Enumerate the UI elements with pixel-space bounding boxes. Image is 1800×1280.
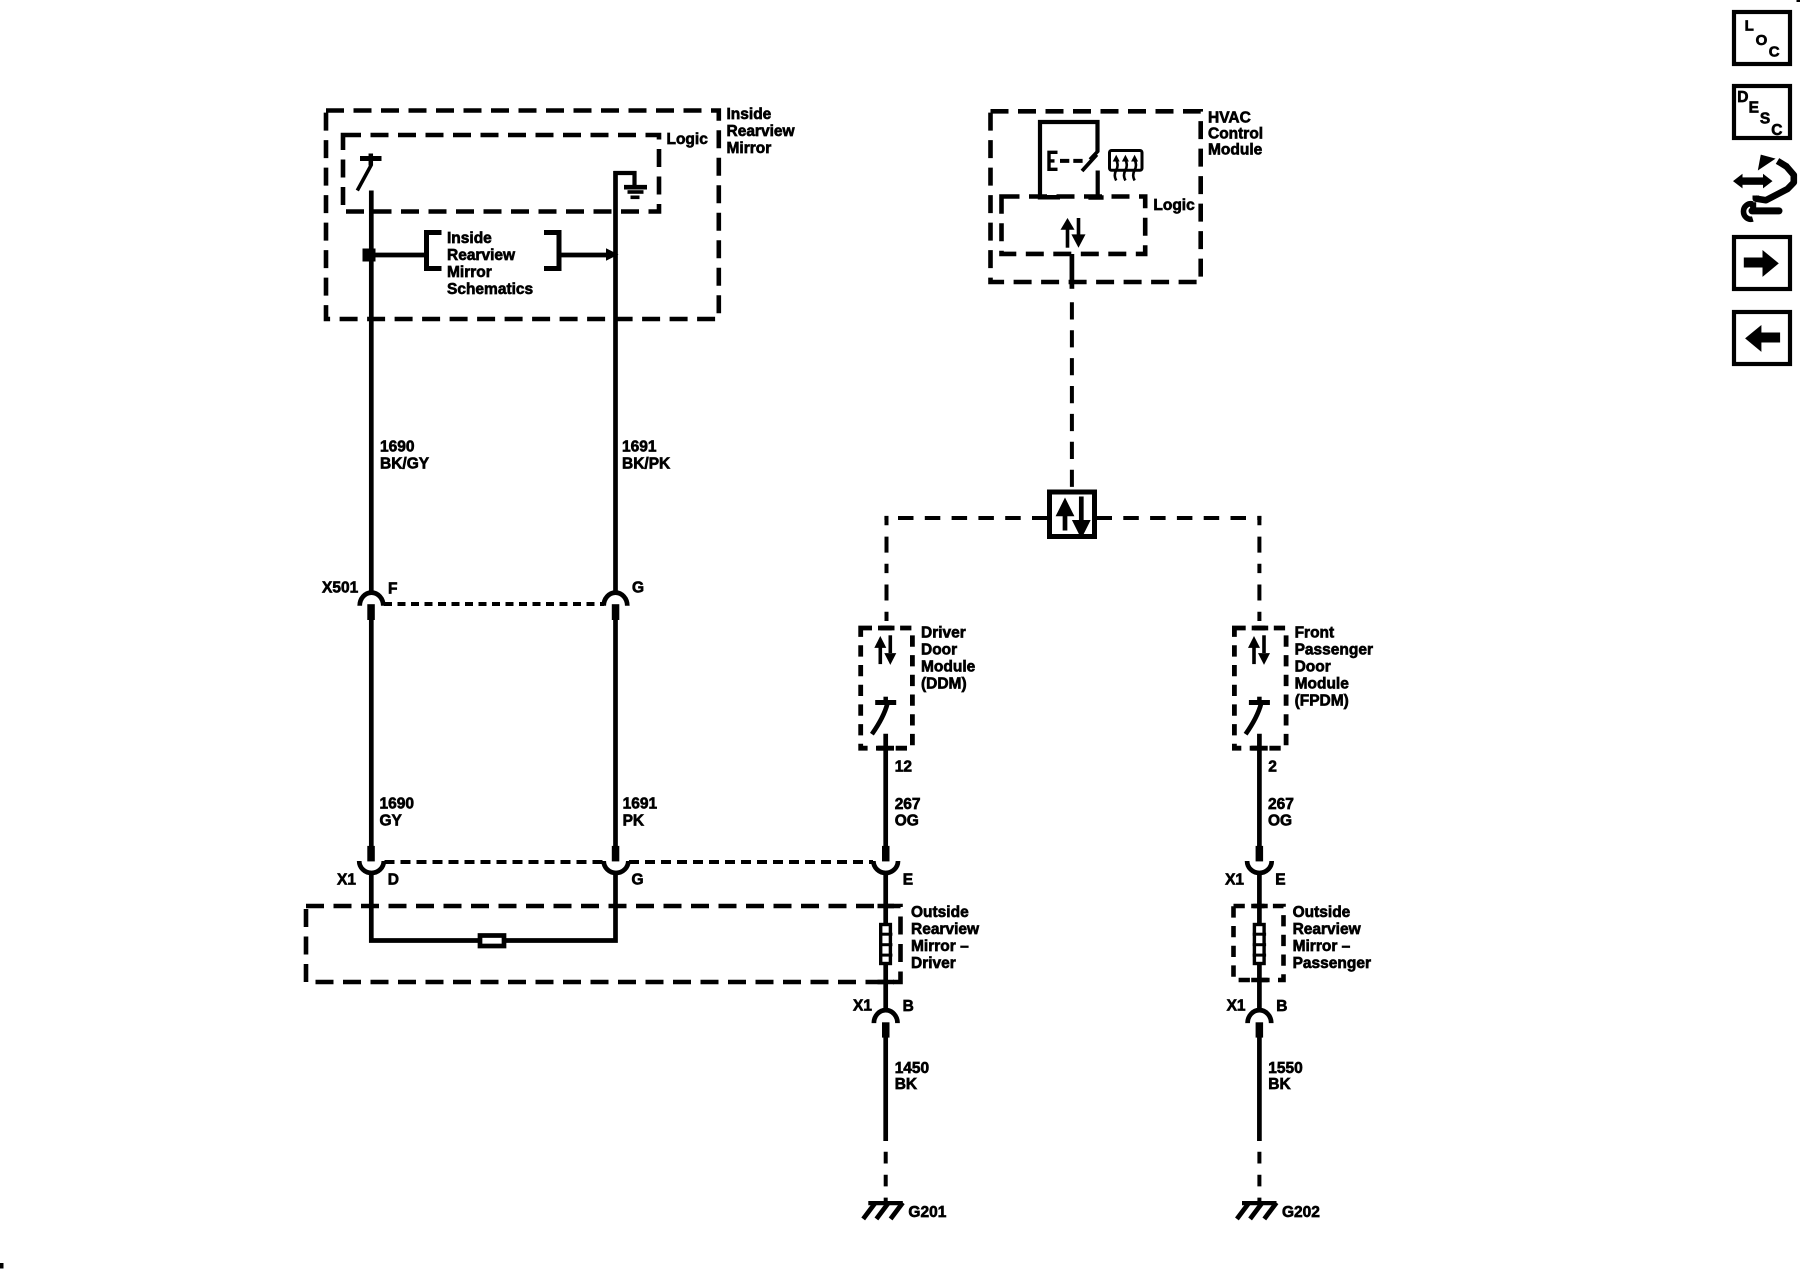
DDM switch pivot tick bbox=[883, 697, 888, 705]
wire 1691 PK middle segment bbox=[613, 619, 618, 846]
Front Passenger Door Module label bbox=[1295, 625, 1373, 710]
HVAC logic down arrow bbox=[1071, 218, 1085, 248]
IRM switch blade bbox=[357, 165, 371, 191]
Front Passenger Door Module dashed box bbox=[1234, 628, 1286, 748]
svg-text:267: 267 bbox=[895, 796, 921, 813]
svg-text:12: 12 bbox=[895, 759, 912, 776]
svg-text:Mirror: Mirror bbox=[447, 264, 492, 281]
passenger mirror box bottom crossing dash bbox=[1251, 978, 1268, 983]
svg-text:Mirror: Mirror bbox=[727, 140, 772, 157]
svg-text:Driver: Driver bbox=[921, 625, 966, 642]
passenger mirror wire into heater bbox=[1257, 873, 1262, 926]
page artifact mark top-right bbox=[1797, 0, 1800, 2]
connector X1 pin G stub bbox=[612, 846, 620, 862]
wire 1690 GY middle segment bbox=[369, 619, 374, 846]
HVAC Logic dashed box bbox=[1002, 197, 1146, 254]
svg-text:Rearview: Rearview bbox=[911, 921, 980, 938]
heated mirror icon box bbox=[1110, 151, 1143, 171]
svg-text:1691: 1691 bbox=[622, 439, 657, 456]
IRM switch pivot tick bbox=[369, 154, 374, 166]
connector X1 B driver stub bbox=[882, 1022, 890, 1037]
driver mirror wire into heater bbox=[883, 873, 888, 926]
ground G201 bbox=[863, 1203, 903, 1219]
svg-text:BK: BK bbox=[1268, 1076, 1291, 1093]
ground G202 bbox=[1237, 1203, 1277, 1219]
SIDEBAR-ICONS bbox=[1733, 12, 1794, 364]
svg-text:Outside: Outside bbox=[1293, 904, 1351, 921]
svg-text:X1: X1 bbox=[853, 998, 872, 1015]
svg-text:Inside: Inside bbox=[727, 106, 772, 123]
HVAC mirror switch outline bbox=[1040, 122, 1098, 198]
DDM bottom edge crossing dash bbox=[878, 746, 895, 751]
wire 1690 BK/GY upper segment bbox=[369, 191, 374, 593]
svg-text:C: C bbox=[1771, 122, 1782, 139]
schematics link right bracket bbox=[544, 233, 559, 269]
FPDM bottom edge crossing dash bbox=[1251, 746, 1268, 751]
connector X1 dotted line G-E bbox=[629, 860, 873, 864]
HVAC Control Module label bbox=[1208, 110, 1263, 159]
driver mirror wire below heater bbox=[883, 964, 888, 1012]
icon LOC button box bbox=[1734, 12, 1790, 64]
connector X1 B passenger stub bbox=[1256, 1022, 1264, 1037]
icon prev-page left arrow bbox=[1745, 325, 1780, 352]
svg-text:(FPDM): (FPDM) bbox=[1295, 693, 1349, 710]
HVAC Control Module dashed box bbox=[991, 111, 1201, 282]
HVAC-ASSEMBLY bbox=[861, 110, 1373, 889]
wire 1450 BK solid bbox=[883, 1037, 888, 1141]
svg-text:Mirror –: Mirror – bbox=[1293, 938, 1351, 955]
wire label 1690 GY bbox=[380, 796, 414, 830]
wire label 267 OG left bbox=[895, 796, 921, 830]
HVAC switch base dash bbox=[1038, 195, 1060, 200]
icon DESC letters bbox=[1737, 89, 1782, 139]
svg-text:Module: Module bbox=[1208, 142, 1263, 159]
wire 1690 GY into driver mirror bbox=[371, 873, 480, 941]
passenger mirror box top crossing dash bbox=[1251, 904, 1268, 909]
junction dashed wire left bbox=[884, 516, 1047, 520]
passenger mirror heater element bbox=[1253, 925, 1266, 964]
FPDM switch pivot tick bbox=[1257, 697, 1262, 705]
connector X501 dotted line bbox=[384, 602, 604, 606]
FPDM switch blade bbox=[1246, 703, 1262, 734]
connector X501 pin G stub bbox=[612, 604, 620, 620]
svg-text:GY: GY bbox=[380, 813, 403, 830]
mirror motor resistor driver bbox=[480, 936, 504, 947]
svg-text:BK/GY: BK/GY bbox=[380, 456, 430, 473]
connector X1 dotted line D-G bbox=[385, 860, 604, 864]
svg-text:G: G bbox=[632, 580, 644, 597]
Inside Rearview Mirror outer dashed box bbox=[326, 111, 719, 320]
svg-text:Inside: Inside bbox=[447, 230, 492, 247]
wire label 1550 BK bbox=[1268, 1060, 1302, 1093]
svg-text:Passenger: Passenger bbox=[1295, 642, 1373, 659]
heated mirror icon arrowheads bbox=[1113, 155, 1138, 162]
FPDM switch contact bar bbox=[1249, 700, 1270, 705]
icon wrench bbox=[1743, 202, 1779, 219]
wire label 1690 BK/GY bbox=[380, 439, 430, 473]
Inside Rearview Mirror Schematics label bbox=[447, 230, 533, 298]
svg-text:Rearview: Rearview bbox=[1293, 921, 1362, 938]
HVAC mirror switch blade bbox=[1082, 155, 1097, 171]
HVAC mirror switch dashes bbox=[1060, 159, 1083, 163]
connector X1 passenger pin E arc bbox=[1247, 861, 1272, 873]
svg-text:D: D bbox=[1737, 89, 1748, 106]
svg-text:BK: BK bbox=[895, 1076, 918, 1093]
connector X1 B driver arc bbox=[874, 1010, 898, 1023]
Outside Rearview Mirror Passenger label bbox=[1293, 904, 1371, 972]
wire 1550 BK dashed bbox=[1257, 1152, 1261, 1201]
svg-text:X1: X1 bbox=[1225, 872, 1244, 889]
Inside Rearview Mirror label bbox=[727, 106, 796, 157]
svg-text:G: G bbox=[632, 872, 644, 889]
svg-text:Door: Door bbox=[921, 642, 957, 659]
svg-text:B: B bbox=[903, 998, 914, 1015]
svg-text:Front: Front bbox=[1295, 625, 1335, 642]
svg-text:G201: G201 bbox=[908, 1204, 946, 1221]
HVAC mirror switch pole bbox=[1096, 171, 1100, 198]
wire label 267 OG right bbox=[1268, 796, 1294, 830]
svg-text:1690: 1690 bbox=[380, 796, 414, 813]
junction up-down arrow box bbox=[1050, 492, 1095, 537]
FPDM down arrow bbox=[1258, 635, 1270, 665]
connector X1 B passenger arc bbox=[1248, 1010, 1272, 1023]
junction dashed wire left riser bbox=[885, 516, 889, 625]
svg-text:Rearview: Rearview bbox=[727, 123, 796, 140]
connector X1 pin G arc bbox=[604, 861, 629, 873]
connector X1 pin E stub bbox=[882, 846, 890, 862]
svg-text:X1: X1 bbox=[337, 872, 356, 889]
connector X501 pin F stub bbox=[367, 604, 375, 620]
wire from schematics link right bbox=[559, 253, 607, 258]
HVAC output wire dashed bbox=[1070, 302, 1074, 490]
icon LOC letters bbox=[1745, 18, 1780, 61]
DDM switch contact bar bbox=[875, 700, 896, 705]
svg-text:Outside: Outside bbox=[911, 904, 969, 921]
icon next-page button box bbox=[1734, 237, 1790, 289]
svg-text:Mirror –: Mirror – bbox=[911, 938, 969, 955]
FPDM output wire bbox=[1257, 734, 1262, 846]
svg-text:Schematics: Schematics bbox=[447, 281, 533, 298]
wire 1450 BK dashed bbox=[884, 1152, 888, 1201]
svg-text:1550: 1550 bbox=[1268, 1060, 1302, 1077]
svg-text:(DDM): (DDM) bbox=[921, 676, 967, 693]
svg-text:S: S bbox=[1760, 111, 1770, 128]
junction box down arrow bbox=[1072, 497, 1091, 539]
svg-text:E: E bbox=[1749, 99, 1759, 116]
svg-text:X1: X1 bbox=[1227, 998, 1246, 1015]
connector X1 pin E arc bbox=[873, 861, 898, 873]
heated mirror icon arrows bbox=[1115, 160, 1136, 181]
DDM up arrow bbox=[874, 636, 886, 664]
HVAC logic up arrow bbox=[1061, 218, 1075, 248]
svg-text:OG: OG bbox=[1268, 813, 1292, 830]
connector X1 pin D stub bbox=[367, 846, 375, 862]
connector X501 pin G arc bbox=[604, 593, 628, 606]
FPDM up arrow bbox=[1248, 636, 1260, 664]
svg-text:Rearview: Rearview bbox=[447, 247, 516, 264]
svg-text:O: O bbox=[1756, 32, 1768, 49]
icon reroute squiggle path bbox=[1756, 161, 1794, 200]
icon prev-page button box bbox=[1734, 312, 1790, 364]
driver mirror heater element bbox=[879, 925, 892, 964]
icon reroute arrowhead bbox=[1758, 155, 1776, 171]
HVAC mirror switch pole T-bar bbox=[1088, 195, 1103, 200]
svg-text:D: D bbox=[388, 872, 399, 889]
Outside Rearview Mirror Driver label bbox=[911, 904, 980, 972]
svg-text:267: 267 bbox=[1268, 796, 1294, 813]
connector X1 passenger pin E stub bbox=[1256, 846, 1264, 862]
wire to schematics link left bbox=[371, 253, 424, 258]
MIRRORS-AND-GROUNDS bbox=[306, 873, 1371, 1222]
svg-text:PK: PK bbox=[623, 813, 645, 830]
FPDM top edge crossing dash bbox=[1252, 626, 1269, 631]
page artifact dot bottom-left bbox=[0, 1263, 4, 1269]
wire 1691 BK/PK upper segment bbox=[613, 171, 618, 593]
svg-text:G202: G202 bbox=[1282, 1204, 1320, 1221]
wire label 1691 PK bbox=[623, 796, 658, 830]
DDM switch blade bbox=[872, 703, 888, 734]
IRM Logic dashed box bbox=[343, 135, 659, 212]
svg-text:C: C bbox=[1769, 43, 1780, 60]
junction dot on wire 1690 bbox=[363, 249, 376, 262]
icon DESC button box bbox=[1734, 86, 1790, 138]
DDM output wire bbox=[883, 734, 888, 846]
wire label 1691 BK/PK bbox=[622, 439, 671, 473]
svg-text:2: 2 bbox=[1268, 759, 1277, 776]
Outside Rearview Mirror Driver dashed box bbox=[306, 906, 901, 982]
svg-text:Module: Module bbox=[921, 659, 976, 676]
svg-text:Door: Door bbox=[1295, 659, 1331, 676]
driver mirror box bottom crossing dash bbox=[878, 980, 895, 985]
svg-text:OG: OG bbox=[895, 813, 919, 830]
svg-text:1691: 1691 bbox=[623, 796, 658, 813]
wire 1691 PK into driver mirror bbox=[504, 873, 616, 941]
svg-text:Passenger: Passenger bbox=[1293, 955, 1371, 972]
svg-text:Module: Module bbox=[1295, 676, 1350, 693]
Driver Door Module label bbox=[921, 625, 976, 693]
wire label 1450 BK bbox=[895, 1060, 929, 1093]
junction dashed wire right riser bbox=[1257, 516, 1261, 625]
svg-text:1450: 1450 bbox=[895, 1060, 929, 1077]
svg-text:Logic: Logic bbox=[667, 131, 709, 148]
svg-text:HVAC: HVAC bbox=[1208, 110, 1251, 127]
connector X1 pin D arc bbox=[359, 861, 384, 873]
connector X501 pin F arc bbox=[360, 593, 384, 606]
HVAC mirror switch E bracket bbox=[1049, 152, 1058, 169]
IRM internal ground bars bbox=[624, 187, 647, 197]
HVAC output wire solid bbox=[1070, 254, 1075, 289]
junction box up arrow bbox=[1056, 498, 1075, 531]
HVAC mirror switch chamfer bbox=[1090, 151, 1099, 160]
arrowhead into wire 1691 bbox=[606, 248, 619, 261]
IRM internal ground elbow bbox=[614, 173, 635, 185]
svg-text:Driver: Driver bbox=[911, 955, 956, 972]
svg-text:Control: Control bbox=[1208, 126, 1263, 143]
icon next-page right arrow bbox=[1744, 250, 1779, 277]
Driver Door Module dashed box bbox=[861, 628, 913, 748]
svg-text:L: L bbox=[1745, 18, 1754, 35]
svg-text:B: B bbox=[1276, 998, 1287, 1015]
svg-text:1690: 1690 bbox=[380, 439, 414, 456]
junction dashed wire right bbox=[1097, 516, 1262, 520]
passenger mirror wire below heater bbox=[1257, 964, 1262, 1012]
svg-text:E: E bbox=[1275, 872, 1285, 889]
IRM-ASSEMBLY bbox=[322, 106, 873, 946]
Outside Rearview Mirror Passenger dashed box bbox=[1234, 906, 1284, 980]
wire 1550 BK solid bbox=[1257, 1037, 1262, 1141]
svg-text:F: F bbox=[388, 581, 397, 598]
svg-text:E: E bbox=[903, 872, 913, 889]
IRM switch contact bar bbox=[360, 156, 382, 161]
DDM down arrow bbox=[884, 635, 896, 665]
schematics link left bracket bbox=[427, 233, 442, 269]
svg-text:Logic: Logic bbox=[1153, 197, 1195, 214]
DDM top edge crossing dash bbox=[878, 626, 895, 631]
svg-text:BK/PK: BK/PK bbox=[622, 456, 671, 473]
svg-text:X501: X501 bbox=[322, 580, 359, 597]
icon reroute double-headed arrow bbox=[1733, 174, 1773, 189]
driver mirror box top crossing dash bbox=[878, 904, 895, 909]
